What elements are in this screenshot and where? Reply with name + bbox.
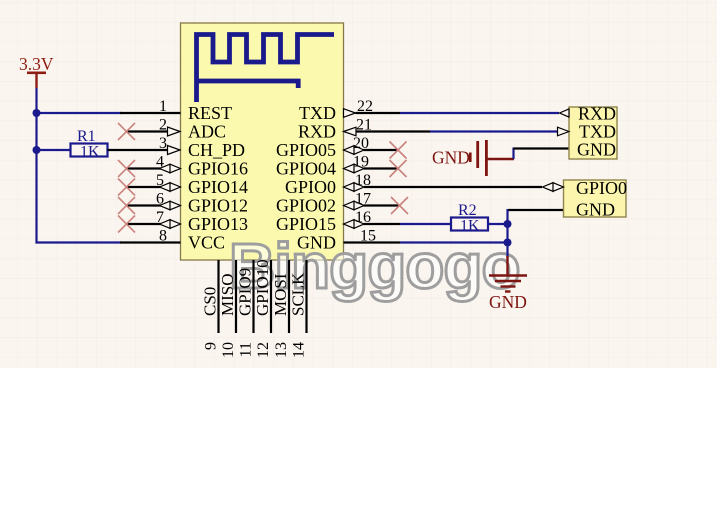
junction dot node 3.3V pin1 (33, 109, 41, 117)
bidir arrow at port GPIO0 (543, 183, 564, 192)
svg-text:GPIO13: GPIO13 (188, 214, 248, 234)
svg-text:R2: R2 (458, 202, 477, 219)
svg-text:18: 18 (355, 172, 371, 189)
resistor R1 body (71, 144, 108, 157)
port GPIO0/GND box (564, 180, 627, 217)
svg-text:TXD: TXD (299, 103, 336, 123)
svg-text:GND: GND (489, 292, 527, 312)
svg-text:GPIO9: GPIO9 (236, 268, 255, 316)
svg-text:16: 16 (355, 209, 371, 226)
svg-text:7: 7 (156, 209, 164, 226)
bidir arrow pin 20 (344, 146, 365, 155)
bidir arrow pin 17 (344, 201, 365, 210)
pin 19 GPIO04 stub (364, 167, 399, 169)
pin 18 GPIO0 wire to port (364, 186, 542, 188)
wire bus to pin1 (37, 112, 122, 114)
svg-text:GPIO10: GPIO10 (253, 259, 272, 316)
svg-text:MISO: MISO (218, 273, 237, 316)
svg-text:GND: GND (576, 200, 615, 220)
svg-text:CS0: CS0 (201, 287, 220, 316)
schematic sheet background (0, 0, 717, 368)
no-ERC X pin 5 (118, 179, 135, 196)
wire R1 to pin 3 (108, 149, 169, 151)
pin 2 ADC stub (127, 130, 169, 132)
wire left power bus (37, 88, 122, 243)
pin 17 GPIO02 stub (364, 204, 400, 206)
pin 16 GPIO15 wire to R2 (364, 223, 401, 225)
svg-text:GPIO15: GPIO15 (276, 214, 336, 234)
svg-text:GPIO0: GPIO0 (285, 177, 336, 197)
wire port2 GND down to ground (508, 209, 564, 211)
bidir arrow pin 19 (344, 164, 365, 173)
wire bus to R1 (37, 149, 72, 151)
no-ERC X pin 20 (390, 142, 407, 159)
svg-text:GPIO04: GPIO04 (276, 159, 336, 179)
svg-text:GPIO0: GPIO0 (576, 178, 627, 198)
svg-text:GPIO14: GPIO14 (188, 177, 248, 197)
svg-text:3: 3 (159, 135, 167, 152)
antenna feed line (197, 81, 299, 88)
bottom pin 13 MOSI stub (288, 260, 290, 333)
no-ERC X pin 17 (391, 197, 408, 214)
svg-text:1K: 1K (80, 144, 100, 161)
svg-text:8: 8 (159, 228, 167, 245)
pin 1 REST stub (120, 112, 181, 114)
pin 21 RXD input arrow (344, 127, 357, 136)
svg-text:SCLK: SCLK (289, 272, 308, 316)
svg-text:6: 6 (156, 191, 164, 208)
svg-text:1: 1 (159, 98, 167, 115)
no-ERC X pin 19 (390, 160, 407, 177)
svg-text:4: 4 (156, 154, 164, 171)
svg-text:1K: 1K (460, 218, 480, 235)
power port 3.3V (19, 54, 54, 88)
junction dot node 3.3V R1 (33, 146, 41, 154)
wire pin 22 to port RXD (356, 112, 401, 114)
no-ERC X pin 7 (118, 216, 135, 233)
bidir arrow pin 4 (160, 164, 181, 173)
no-ERC X pin 6 (118, 197, 135, 214)
svg-text:CH_PD: CH_PD (188, 140, 245, 160)
svg-text:GND: GND (577, 140, 616, 160)
bidir arrow pin 5 (160, 183, 181, 192)
svg-text:GPIO02: GPIO02 (276, 196, 336, 216)
svg-text:RXD: RXD (578, 104, 616, 124)
pin 15 GND wire (344, 241, 401, 243)
input arrow pin 2 (168, 127, 181, 136)
svg-text:GPIO16: GPIO16 (188, 159, 248, 179)
svg-text:20: 20 (353, 135, 369, 152)
svg-text:13: 13 (273, 342, 290, 358)
svg-text:TXD: TXD (579, 122, 616, 142)
wire R2 to node (488, 223, 508, 225)
pin 20 GPIO05 stub (364, 149, 399, 151)
svg-text:19: 19 (353, 154, 369, 171)
input arrow pin 3 (168, 146, 181, 155)
bottom pin 14 SCLK stub (305, 260, 307, 333)
pin 22 TXD output arrow (344, 109, 356, 118)
no-ERC X pin 4 (118, 160, 135, 177)
bottom pin 11 GPIO9 stub (252, 260, 254, 333)
svg-text:GPIO12: GPIO12 (188, 196, 248, 216)
svg-text:MOSI: MOSI (271, 273, 290, 316)
ground symbol GND (489, 256, 527, 292)
svg-text:GPIO05: GPIO05 (276, 140, 336, 160)
wire pin 21 to port TXD (356, 130, 430, 132)
svg-text:ADC: ADC (188, 122, 226, 142)
bottom pin 10 MISO stub (235, 260, 237, 333)
svg-text:R1: R1 (77, 128, 96, 145)
junction dot R2 node (504, 220, 512, 228)
svg-text:3.3V: 3.3V (19, 54, 54, 74)
bidir arrow pin 7 (160, 220, 181, 229)
bottom pin 12 GPIO10 stub (270, 260, 272, 333)
pin 8 VCC stub (120, 241, 181, 243)
svg-text:11: 11 (238, 342, 255, 357)
resistor R2 body (451, 218, 488, 231)
bidir arrow pin 16 (344, 220, 365, 229)
power port GND1 battery symbol (432, 140, 569, 176)
svg-text:VCC: VCC (188, 233, 225, 253)
svg-text:21: 21 (356, 117, 372, 134)
svg-text:22: 22 (357, 98, 373, 115)
bidir arrow pin 6 (160, 201, 181, 210)
port arrow into TXD (558, 127, 570, 136)
svg-text:GND: GND (432, 148, 470, 168)
pin 4 GPIO16 stub (127, 167, 162, 169)
no-ERC X pin 2 (118, 123, 135, 140)
svg-text:10: 10 (220, 342, 237, 358)
svg-text:5: 5 (156, 172, 164, 189)
svg-text:17: 17 (355, 191, 371, 208)
svg-text:15: 15 (360, 228, 376, 245)
svg-text:REST: REST (188, 103, 232, 123)
svg-text:14: 14 (291, 342, 308, 358)
pin 6 GPIO12 stub (127, 204, 162, 206)
pin 7 GPIO13 stub (127, 223, 162, 225)
port RXD/TXD/GND box (569, 107, 617, 159)
junction dot pin15 node (504, 239, 512, 247)
svg-text:2: 2 (159, 117, 167, 134)
svg-text:RXD: RXD (298, 122, 336, 142)
svg-text:12: 12 (255, 342, 272, 358)
pin 5 GPIO14 stub (127, 186, 162, 188)
bottom pin 9 CS0 stub (217, 260, 219, 333)
svg-text:9: 9 (203, 342, 220, 350)
antenna meander inside U1 (197, 35, 335, 103)
IC U1 ESP8266 module body (181, 23, 344, 260)
port arrow into RXD (560, 109, 570, 117)
svg-text:GND: GND (297, 233, 336, 253)
bidir arrow pin 18 (344, 183, 365, 192)
